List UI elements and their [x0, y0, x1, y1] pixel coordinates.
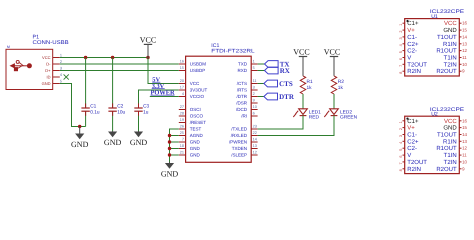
- svg-text:V+: V+: [407, 125, 415, 132]
- U1 pin 2 V+: [403, 29, 405, 31]
- svg-text:/DTR: /DTR: [237, 94, 248, 99]
- U1 pin 13 R1IN: [459, 43, 461, 45]
- svg-text:4: 4: [60, 73, 62, 77]
- wire LED2 to RXLED pin 22: [258, 115, 334, 135]
- wire C1 top lead: [85, 58, 87, 109]
- wire C1 bottom lead: [85, 111, 87, 126]
- svg-text:16: 16: [180, 60, 184, 64]
- svg-text:22: 22: [253, 131, 257, 135]
- svg-text:VCC: VCC: [42, 55, 51, 60]
- svg-text:10: 10: [462, 62, 467, 67]
- wire 3.3V net: 3V3OUT to C3: [139, 90, 179, 108]
- svg-text:14: 14: [462, 132, 467, 137]
- svg-text:14: 14: [462, 34, 467, 39]
- svg-text:TEST: TEST: [190, 127, 202, 132]
- svg-text:R1OUT: R1OUT: [436, 145, 457, 152]
- svg-text:RX: RX: [280, 67, 290, 75]
- power VCC (rail): [140, 36, 156, 58]
- svg-text:VCCIO: VCCIO: [190, 94, 205, 99]
- svg-text:V+: V+: [407, 27, 415, 34]
- U1 pin 6 V: [403, 57, 405, 59]
- wire GND bus tap row 12: [170, 135, 179, 137]
- svg-text:10u: 10u: [117, 109, 125, 115]
- IC1 pin 16 USBDM: [179, 63, 186, 65]
- svg-text:2: 2: [60, 60, 62, 64]
- IC1 pin 5 RXD: [251, 70, 257, 72]
- svg-text:/RXLED: /RXLED: [231, 133, 248, 138]
- svg-text:1: 1: [60, 53, 62, 57]
- U2 pin 6 V: [403, 154, 405, 156]
- svg-text:GND: GND: [443, 27, 457, 34]
- svg-text:/SLEEP: /SLEEP: [231, 153, 247, 158]
- svg-text:VCC: VCC: [444, 20, 457, 27]
- IC1 pin 14 /PWREN: [251, 141, 257, 143]
- svg-text:6: 6: [399, 156, 403, 158]
- svg-text:TXD: TXD: [238, 62, 248, 67]
- svg-text:GND: GND: [104, 138, 122, 147]
- svg-text:1: 1: [399, 24, 403, 26]
- no-connect X on ID pin: [64, 74, 69, 79]
- U2 pin 13 R1IN: [459, 140, 461, 142]
- svg-text:GND: GND: [42, 81, 51, 86]
- svg-text:1k: 1k: [307, 85, 313, 91]
- svg-text:5: 5: [253, 66, 255, 70]
- svg-text:U2: U2: [431, 112, 438, 118]
- U2 pin 10 T2IN: [459, 161, 461, 163]
- svg-text:3: 3: [253, 86, 255, 90]
- U2 pin 15 GND: [459, 127, 461, 129]
- LED LED1 RED: [293, 109, 307, 117]
- svg-text:/PWREN: /PWREN: [229, 140, 247, 145]
- IC1 pin 15 USBDP: [179, 70, 186, 72]
- svg-text:T1IN: T1IN: [444, 152, 457, 159]
- svg-text:C1-: C1-: [407, 34, 417, 41]
- svg-text:15: 15: [180, 66, 184, 70]
- IC IC1 FTDI-FT232RL: [186, 56, 252, 162]
- U1 pin 3 C1-: [403, 36, 405, 38]
- svg-text:28: 28: [180, 112, 184, 116]
- ground GND1 (USB/C1): [71, 127, 89, 150]
- IC1 pin 19 /RESET: [179, 122, 186, 124]
- U2 pin 3 C1-: [403, 134, 405, 136]
- svg-text:16: 16: [462, 21, 467, 26]
- svg-text:V: V: [407, 152, 411, 159]
- junction C2-top: [111, 56, 114, 59]
- svg-text:14: 14: [253, 138, 257, 142]
- U1 pin 7 T2OUT: [403, 63, 405, 65]
- svg-text:12: 12: [462, 48, 467, 53]
- svg-text:T1OUT: T1OUT: [437, 34, 457, 41]
- U1 pin 15 GND: [459, 29, 461, 31]
- svg-text:/RESET: /RESET: [190, 120, 207, 125]
- svg-text:10: 10: [462, 159, 467, 164]
- wire POWER net stub: [150, 96, 179, 98]
- svg-text:19: 19: [180, 118, 184, 122]
- wire C2 top lead: [112, 58, 114, 109]
- svg-text:GREEN: GREEN: [340, 115, 358, 121]
- U1 pin 11 T1IN: [459, 57, 461, 59]
- P1 pin 4 stub: [53, 76, 60, 78]
- svg-text:3: 3: [399, 37, 403, 39]
- wire R2 to LED2: [333, 94, 335, 109]
- net flag DTR: [264, 93, 295, 101]
- svg-text:20: 20: [180, 79, 184, 83]
- svg-text:VCC: VCC: [324, 48, 340, 57]
- svg-text:0.1u: 0.1u: [90, 109, 100, 115]
- wire TXD to TX flag: [258, 63, 265, 65]
- svg-text:AGND: AGND: [190, 133, 204, 138]
- svg-text:C2+: C2+: [407, 138, 419, 145]
- svg-text:C1+: C1+: [407, 20, 419, 27]
- wire LED1 to TXLED pin 23: [258, 115, 303, 129]
- ground GND2 (C2): [104, 131, 122, 147]
- IC1 pin 28 OSCO: [179, 115, 186, 117]
- svg-text:FTDI-FT232RL: FTDI-FT232RL: [211, 49, 254, 55]
- svg-text:1: 1: [253, 60, 255, 64]
- IC1 pin 2 /DTR: [251, 96, 257, 98]
- svg-text:7: 7: [399, 162, 403, 164]
- U2 pin 2 V+: [403, 127, 405, 129]
- wire VCC rail: [60, 57, 148, 59]
- wire GND bus tap row 15: [170, 154, 179, 156]
- P1 pin 3 stub: [53, 70, 60, 72]
- svg-text:8: 8: [399, 72, 403, 74]
- P1 pin 2 stub: [53, 63, 60, 65]
- wire GND bus tap row 13: [170, 141, 179, 143]
- svg-text:11: 11: [253, 79, 257, 83]
- svg-text:C2-: C2-: [407, 48, 417, 55]
- svg-text:2: 2: [253, 92, 255, 96]
- svg-text:RED: RED: [309, 115, 320, 121]
- wire DTR to DTR flag: [258, 96, 264, 98]
- svg-text:OSCI: OSCI: [190, 107, 201, 112]
- IC1 pin 1 TXD: [251, 63, 257, 65]
- svg-text:25: 25: [180, 131, 184, 135]
- svg-text:TXDEN: TXDEN: [232, 146, 247, 151]
- U1 pin 12 R1OUT: [459, 50, 461, 52]
- net label 3.3V: [152, 83, 165, 90]
- U2 pin 5 C2-: [403, 147, 405, 149]
- svg-text:26: 26: [180, 125, 184, 129]
- svg-text:5: 5: [399, 149, 403, 151]
- wire D- to USBDM: [60, 63, 179, 65]
- ground GND4 (IC1): [161, 162, 179, 179]
- U1 pin 10 T2IN: [459, 63, 461, 65]
- U2 pin 8 R2IN: [403, 168, 405, 170]
- U2 pin 11 T1IN: [459, 154, 461, 156]
- wire 5V net: rail down to VCC pin: [148, 58, 179, 84]
- wire USB GND down: [60, 84, 86, 127]
- svg-text:12: 12: [253, 151, 257, 155]
- svg-text:15: 15: [462, 125, 467, 130]
- svg-text:M: M: [7, 45, 10, 49]
- svg-text:USBDM: USBDM: [190, 62, 207, 67]
- svg-text:/TXLED: /TXLED: [231, 127, 248, 132]
- svg-text:C2+: C2+: [407, 41, 419, 48]
- svg-text:13: 13: [462, 139, 467, 144]
- svg-text:1: 1: [399, 121, 403, 123]
- svg-text:17: 17: [180, 86, 184, 90]
- svg-text:R2OUT: R2OUT: [436, 166, 457, 173]
- U1 pin 1 C1+: [403, 22, 405, 24]
- IC1 pin 21 GND: [179, 154, 186, 156]
- U1 pin 4 C2+: [403, 43, 405, 45]
- wire D+ to USBDP: [60, 70, 179, 72]
- ground GND3 (C3): [130, 131, 148, 147]
- svg-text:GND: GND: [190, 153, 201, 158]
- svg-text:9: 9: [253, 99, 255, 103]
- net label POWER: [151, 89, 176, 96]
- wire C3 bottom lead: [138, 111, 140, 131]
- svg-text:11: 11: [462, 153, 467, 158]
- svg-text:27: 27: [180, 105, 184, 109]
- svg-text:GND: GND: [443, 125, 457, 132]
- svg-text:3V3OUT: 3V3OUT: [190, 88, 208, 93]
- U2 pin 1 C1+: [403, 120, 405, 122]
- svg-text:GND: GND: [190, 140, 201, 145]
- IC U1 ICL232CPE: [405, 19, 460, 76]
- svg-text:C3: C3: [143, 104, 149, 110]
- svg-text:2: 2: [399, 31, 403, 33]
- svg-text:C2: C2: [117, 104, 123, 110]
- IC1 pin 18 GND: [179, 148, 186, 150]
- svg-text:15: 15: [462, 28, 467, 33]
- IC1 pin 27 OSCI: [179, 109, 186, 111]
- svg-text:T2OUT: T2OUT: [407, 159, 427, 166]
- svg-text:T2OUT: T2OUT: [407, 61, 427, 68]
- svg-text:C1+: C1+: [407, 118, 419, 125]
- IC1 pin 9 /DSR: [251, 102, 257, 104]
- svg-text:R1IN: R1IN: [443, 41, 457, 48]
- U2 pin 16 VCC: [459, 120, 461, 122]
- svg-text:4: 4: [182, 92, 184, 96]
- svg-text:R1: R1: [307, 79, 313, 85]
- U2 pin 14 T1OUT: [459, 134, 461, 136]
- wire R1 to LED1: [302, 94, 304, 109]
- net flag TX: [265, 60, 290, 68]
- svg-text:1k: 1k: [338, 85, 344, 91]
- svg-text:OSCO: OSCO: [190, 114, 204, 119]
- IC1 pin 4 VCCIO: [179, 96, 186, 98]
- resistor R1 1k: [300, 76, 305, 94]
- svg-text:5: 5: [60, 79, 62, 83]
- svg-text:C1: C1: [90, 104, 96, 110]
- capacitor C2: [108, 103, 116, 115]
- junction GND1: [78, 125, 81, 128]
- svg-text:ID: ID: [47, 75, 51, 80]
- IC1 pin 6 /RI: [251, 115, 257, 117]
- U1 pin 5 C2-: [403, 50, 405, 52]
- svg-text:T1IN: T1IN: [444, 55, 457, 62]
- svg-text:GND: GND: [161, 170, 179, 179]
- svg-text:C2-: C2-: [407, 145, 417, 152]
- svg-text:R1OUT: R1OUT: [436, 48, 457, 55]
- LED LED2 GREEN: [324, 109, 338, 117]
- svg-text:GND: GND: [130, 138, 148, 147]
- svg-text:3: 3: [60, 66, 62, 70]
- svg-text:RXD: RXD: [237, 68, 247, 73]
- USB icon: [11, 60, 32, 70]
- svg-text:23: 23: [253, 125, 257, 129]
- svg-text:R2: R2: [338, 79, 344, 85]
- svg-text:3: 3: [399, 135, 403, 137]
- IC1 pin 3 /RTS: [251, 89, 257, 91]
- net label 5V: [152, 76, 160, 83]
- svg-text:R2IN: R2IN: [407, 68, 421, 75]
- IC1 pin 26 TEST: [179, 128, 186, 130]
- svg-text:6: 6: [399, 58, 403, 60]
- svg-text:13: 13: [462, 41, 467, 46]
- svg-text:13: 13: [253, 144, 257, 148]
- net flag CTS: [264, 80, 293, 88]
- svg-text:11: 11: [462, 55, 467, 60]
- svg-text:1u: 1u: [143, 109, 149, 115]
- U2 pin 4 C2+: [403, 140, 405, 142]
- svg-text:R2OUT: R2OUT: [436, 68, 457, 75]
- connector P1 CONN-USBB: [6, 49, 53, 89]
- svg-text:DTR: DTR: [279, 93, 295, 101]
- svg-text:V: V: [407, 55, 411, 62]
- U1 pin-1 marker: [406, 20, 408, 22]
- U2 pin-1 marker: [406, 118, 408, 120]
- svg-text:2: 2: [399, 128, 403, 130]
- svg-text:8: 8: [399, 169, 403, 171]
- IC1 pin 13 TXDEN: [251, 148, 257, 150]
- svg-text:CONN-USBB: CONN-USBB: [33, 40, 70, 46]
- junction C1-top: [84, 56, 87, 59]
- svg-text:18: 18: [180, 144, 184, 148]
- wire CTS to CTS flag: [258, 83, 264, 85]
- wire GND bus tap row 14: [170, 148, 179, 150]
- wire RXD to RX flag: [258, 70, 265, 72]
- wire C2 bottom lead: [112, 111, 114, 131]
- junction VCC stem: [146, 56, 149, 59]
- power VCC (R1): [293, 48, 309, 76]
- wire TEST-AGND-GND bus: [170, 129, 179, 162]
- U2 pin 7 T2OUT: [403, 161, 405, 163]
- U2 pin 9 R2OUT: [459, 168, 461, 170]
- svg-text:4: 4: [399, 142, 403, 144]
- P1 pin 5 stub: [53, 83, 60, 85]
- svg-text:U1: U1: [431, 14, 438, 20]
- IC1 pin 20 VCC: [179, 83, 186, 85]
- svg-text:4: 4: [399, 44, 403, 46]
- net flag RX: [265, 67, 290, 75]
- svg-text:CTS: CTS: [279, 80, 293, 88]
- U1 pin 16 VCC: [459, 22, 461, 24]
- svg-text:/DCD: /DCD: [236, 107, 248, 112]
- IC1 pin 7 GND: [179, 141, 186, 143]
- svg-text:VCC: VCC: [293, 48, 309, 57]
- svg-text:USBDP: USBDP: [190, 68, 206, 73]
- IC1 pin 22 /RXLED: [251, 135, 257, 137]
- svg-text:5: 5: [399, 51, 403, 53]
- U1 pin 9 R2OUT: [459, 70, 461, 72]
- svg-text:D-: D-: [46, 62, 51, 67]
- svg-text:T2IN: T2IN: [444, 159, 457, 166]
- IC1 pin 10 /DCD: [251, 109, 257, 111]
- svg-text:GND: GND: [71, 140, 89, 149]
- svg-text:10: 10: [253, 105, 257, 109]
- resistor R2 1k: [331, 76, 336, 94]
- svg-text:C1-: C1-: [407, 132, 417, 139]
- P1 pin 1 stub: [53, 57, 60, 59]
- svg-text:/RI: /RI: [241, 114, 247, 119]
- svg-text:7: 7: [399, 65, 403, 67]
- IC1 pin 25 AGND: [179, 135, 186, 137]
- power VCC (R2): [324, 48, 340, 76]
- svg-text:VCC: VCC: [140, 36, 156, 45]
- svg-text:T2IN: T2IN: [444, 61, 457, 68]
- svg-text:VCC: VCC: [444, 118, 457, 125]
- svg-text:T1OUT: T1OUT: [437, 132, 457, 139]
- svg-text:16: 16: [462, 118, 467, 123]
- svg-text:R1IN: R1IN: [443, 138, 457, 145]
- IC1 pin 17 3V3OUT: [179, 89, 186, 91]
- capacitor C3: [134, 103, 142, 115]
- svg-text:21: 21: [180, 151, 184, 155]
- capacitor C1: [81, 103, 89, 115]
- svg-text:R2IN: R2IN: [407, 166, 421, 173]
- IC1 pin 12 /SLEEP: [251, 154, 257, 156]
- svg-text:/DSR: /DSR: [236, 101, 248, 106]
- svg-text:VCC: VCC: [190, 81, 200, 86]
- U2 pin 12 R1OUT: [459, 147, 461, 149]
- IC1 pin 11 /CTS: [251, 83, 257, 85]
- svg-text:GND: GND: [190, 146, 201, 151]
- svg-text:D+: D+: [45, 68, 51, 73]
- svg-text:12: 12: [462, 146, 467, 151]
- U1 pin 8 R2IN: [403, 70, 405, 72]
- svg-text:/RTS: /RTS: [237, 88, 247, 93]
- svg-text:7: 7: [182, 138, 184, 142]
- IC U2 ICL232CPE: [405, 116, 460, 173]
- IC1 pin 23 /TXLED: [251, 128, 257, 130]
- svg-text:6: 6: [253, 112, 255, 116]
- U1 pin 14 T1OUT: [459, 36, 461, 38]
- svg-text:/CTS: /CTS: [237, 81, 247, 86]
